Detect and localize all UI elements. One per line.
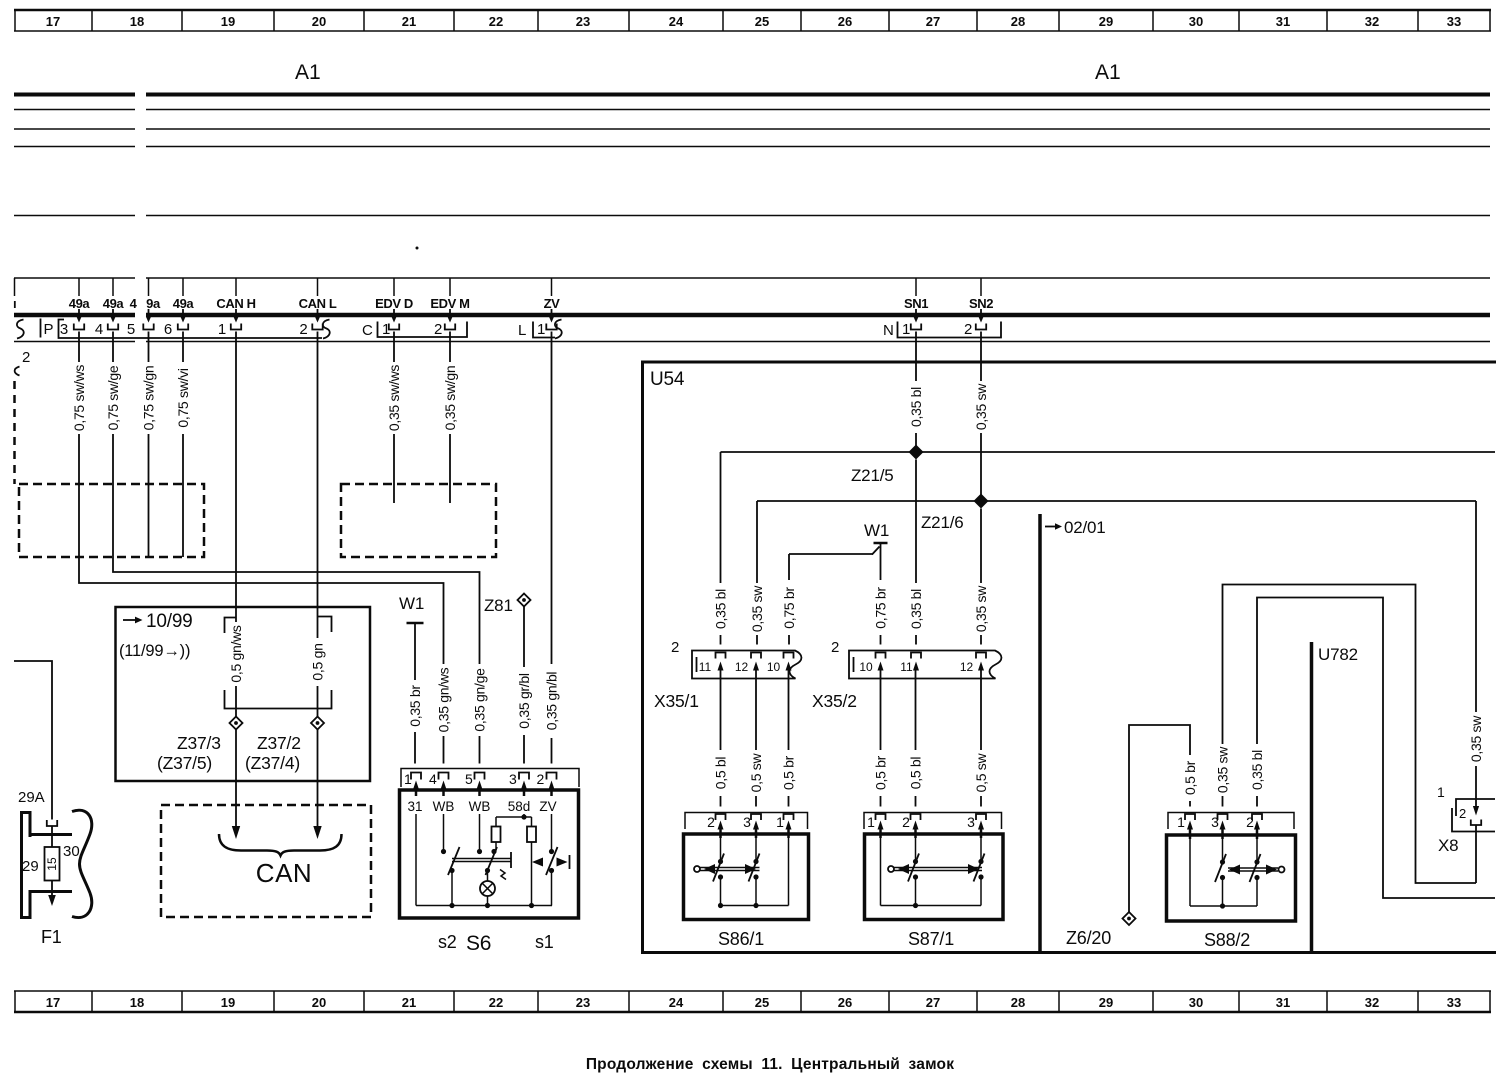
twisted pair bracket [225,690,332,709]
X35/2 pin 12 [976,653,986,671]
svg-text:25: 25 [755,14,769,29]
svg-text:CAN L: CAN L [299,296,337,311]
svg-text:24: 24 [669,14,684,29]
svg-text:21: 21 [402,14,416,29]
svg-text:2: 2 [1459,806,1466,821]
connector squiggle fragment at page edge [15,367,20,376]
connector C row [362,322,467,340]
S86/1 contact right [749,854,760,882]
wire CAN H down to Z37/3 [235,332,237,718]
svg-text:F1: F1 [41,927,62,947]
S87/1 pin 2 [902,814,920,838]
svg-text:19: 19 [221,995,235,1010]
svg-text:10: 10 [859,660,873,674]
terminal 49a (pin 4) [103,278,125,330]
svg-text:21: 21 [402,995,416,1010]
S6 internal terminal labels [407,799,556,814]
svg-text:31: 31 [407,799,422,814]
bus A1 thick line [14,93,1490,97]
svg-text:49a: 49a [173,296,195,311]
svg-text:23: 23 [576,14,590,29]
S87/1 internal wiring [881,836,982,906]
svg-text:0,5 sw: 0,5 sw [973,752,989,792]
svg-text:Z21/6: Z21/6 [921,513,963,532]
terminal EDV M [430,278,469,330]
wire 0,35 bl from Z21/5 to X35/1 pin 11 [720,452,722,645]
svg-text:31: 31 [1276,14,1290,29]
wire CAN H arrow into CAN [235,730,237,828]
column ruler top [14,10,1491,31]
svg-text:31: 31 [1276,995,1290,1010]
wire 0,5 br X35/1 to S86/1 pin 1 [788,670,790,807]
wire 0,35 br label (W1 to S6 pin1) [407,680,423,732]
wire 0,75 sw/ge from 49a pin4 to S6 pin 5 (becomes 0,35 gn/ge) [113,332,480,764]
svg-text:0,5 br: 0,5 br [1182,760,1198,795]
svg-text:N: N [883,322,894,339]
wire 0,35 sw from Z21/6 to X35/2 pin 12 [980,509,982,645]
terminal CAN L [299,278,337,330]
wire CAN L down to Z37/2 [317,332,319,718]
svg-text:EDV D: EDV D [375,296,413,311]
fuse element 15A [45,826,60,906]
svg-text:Z37/2: Z37/2 [257,733,301,753]
svg-text:29A: 29A [18,789,45,806]
svg-text:3: 3 [60,321,68,338]
node Z81 connector sleeve [484,594,531,764]
wire 0,75 br from W1 to X35/1 pin 10 [788,554,790,645]
switch S87/1 box [865,834,1004,920]
X35/1 pin 12 [751,653,761,671]
S87/1 actuator [888,864,982,874]
svg-text:0,35 sw: 0,35 sw [1215,746,1231,793]
svg-text:0,5 bl: 0,5 bl [908,757,924,790]
S6 pin 1 [404,771,421,796]
svg-text:W1: W1 [864,521,889,540]
svg-text:26: 26 [838,995,852,1010]
svg-text:5: 5 [465,771,473,787]
svg-text:20: 20 [312,14,326,29]
svg-text:0,35 gn/ge: 0,35 gn/ge [472,668,488,732]
svg-text:27: 27 [926,995,940,1010]
S6 actuator arrows s1 [532,855,570,869]
svg-text:1: 1 [537,321,545,338]
switch S86/1 connector bracket [685,813,808,830]
S6 pin 3 [509,771,529,796]
S6 rail junction dots [449,903,454,908]
wire 0,5 gn label [310,638,326,686]
svg-text:ı: ı [13,296,16,311]
svg-text:0,75 sw/vi: 0,75 sw/vi [175,368,191,427]
node CAN dashed box [161,805,371,917]
S88/2 actuator [1228,865,1285,875]
S88/2 contact right [1250,854,1261,882]
svg-text:1: 1 [1177,814,1185,830]
svg-text:S86/1: S86/1 [718,929,764,949]
svg-text:1: 1 [902,321,910,338]
svg-text:20: 20 [312,995,326,1010]
svg-text:(Z37/5): (Z37/5) [157,753,212,773]
svg-text:S6: S6 [466,932,491,955]
wire CAN L arrow into CAN [317,730,319,828]
svg-text:22: 22 [489,14,503,29]
X35/2 pin 10 [876,653,886,671]
svg-text:A1: A1 [1095,61,1121,84]
svg-text:s2: s2 [438,932,457,952]
connector X8 [1437,784,1495,883]
wire 0,35 sw/gn from EDV M [449,332,451,504]
switch S87/1 connector bracket [864,813,1002,830]
wire from page edge to fuse F1 terminal 29A [14,661,52,820]
svg-text:0,35 bl: 0,35 bl [908,387,924,427]
terminal CAN H [216,278,255,330]
terminal 49a (pin 6) [173,278,195,330]
wire 0,75 br from W1 to X35/2 pin 10 [880,566,882,645]
wire 0,35 sw from Z21/6 down to X8 pin 2 [1475,501,1477,806]
svg-text:(11/99→)): (11/99→)) [119,642,190,660]
svg-text:2: 2 [964,321,972,338]
wire bus line 3 [14,128,1490,130]
svg-text:Продолжение схемы 11. Централь: Продолжение схемы 11. Центральный замок [586,1056,954,1073]
svg-text:0,5 br: 0,5 br [873,755,889,790]
connector X35/2 strip [812,639,1001,711]
svg-text:2: 2 [22,349,30,366]
svg-text:WB: WB [433,799,455,814]
svg-text:3: 3 [967,814,975,830]
svg-text:11: 11 [900,660,913,674]
svg-text:2: 2 [831,639,839,656]
node Z37/3 connector sleeve [157,717,243,774]
control unit U782 boundary line [1310,642,1314,951]
wire label bracket right (gn) [318,617,332,633]
svg-text:0,75 br: 0,75 br [873,587,889,629]
svg-text:0,75 sw/gn: 0,75 sw/gn [141,366,157,431]
S6 pin 2 [537,771,557,796]
svg-text:A1: A1 [295,61,321,84]
S6 internal wiring [416,814,552,906]
svg-text:CAN: CAN [256,858,312,888]
wire bus line 2 [14,109,1490,111]
switch unit S6 connector bracket [401,769,579,788]
S6 contact s2 [441,847,460,875]
svg-text:49a: 49a [69,296,91,311]
svg-text:0,35 gr/bl: 0,35 gr/bl [516,673,532,729]
svg-text:26: 26 [838,14,852,29]
S6 resistor (right) [527,827,536,843]
wire 0,5 br X35/2 to S87/1 pin 1 [880,670,882,807]
switch S86/1 box [684,834,809,920]
control unit U54 box (open right) [643,362,1497,953]
svg-text:0,35 br: 0,35 br [407,685,423,727]
svg-text:17: 17 [46,14,60,29]
svg-text:0,75 br: 0,75 br [781,587,797,629]
S86/1 pin 1 [776,814,793,838]
wire 0,5 sw X35/2 to S87/1 pin 3 [980,670,982,807]
svg-text:0,35 bl: 0,35 bl [713,589,729,629]
svg-text:32: 32 [1365,995,1379,1010]
S86/1 pin 2 [707,814,725,838]
svg-text:X35/1: X35/1 [654,691,699,711]
svg-text:22: 22 [489,995,503,1010]
svg-text:CAN H: CAN H [216,296,255,311]
S88/2 rail dot [1220,903,1225,908]
svg-text:12: 12 [735,660,749,674]
svg-text:19: 19 [221,14,235,29]
switch S88/2 box [1167,835,1296,921]
S6 pin 5 [465,771,485,796]
wire bus line 5 [14,215,1490,217]
svg-text:28: 28 [1011,14,1025,29]
dashed connector box right (EDV wires) [341,484,496,557]
wire 0,35 sw from S88/2 pin 3 to X8 [1223,585,1477,884]
S6 contact s1 [546,847,558,875]
svg-text:11: 11 [699,660,712,674]
wire 0,35 sw from Z21/6 to X35/1 pin 12 [756,501,758,645]
svg-text:58d: 58d [508,799,531,814]
svg-text:1: 1 [382,321,390,338]
svg-text:0,5 sw: 0,5 sw [748,752,764,792]
wire 0,75 sw/vi from 49a pin6 [182,332,184,558]
switch unit S6 box [400,790,579,918]
X35/2 pin 11 [911,653,921,671]
svg-text:0,35 bl: 0,35 bl [908,589,924,629]
svg-text:02/01: 02/01 [1064,518,1106,537]
S87/1 contact left [908,854,919,882]
label 10/99 with arrow [119,611,193,660]
svg-text:6: 6 [164,321,172,338]
svg-text:2: 2 [434,321,442,338]
svg-text:24: 24 [669,995,684,1010]
svg-text:U782: U782 [1318,645,1358,664]
wire 0,35 gr/bl label (Z81 to S6 pin3) [516,667,532,735]
terminal SN1 [904,278,928,330]
switch S88/2 connector bracket [1168,813,1294,830]
S88/2 pin 3 [1211,814,1227,839]
wire label bracket left (gn/ws) [225,618,237,634]
svg-text:SN2: SN2 [969,296,993,311]
S6 actuator shaft s2 [452,852,511,880]
node Z21/5 junction [721,445,1496,486]
svg-text:2: 2 [299,321,307,338]
antenna/ground symbol W1 (in U54) [789,521,889,566]
antenna/ground symbol W1 (left) [399,594,424,764]
svg-text:2: 2 [707,814,715,830]
X35/1 pin 10 [784,653,794,671]
svg-text:X8: X8 [1438,836,1458,855]
terminal name fragment at left page edge [13,278,16,311]
bus main thick line [14,313,1490,318]
svg-text:3: 3 [509,771,517,787]
svg-text:30: 30 [1189,995,1203,1010]
S87/1 rail dot [913,903,918,908]
svg-text:ZV: ZV [539,799,556,814]
wire 0,35 sw from SN2 to Z21/6 [980,332,982,502]
svg-text:W1: W1 [399,594,424,613]
svg-text:S87/1: S87/1 [908,929,954,949]
node Z37/2 connector sleeve [245,717,324,774]
S88/2 pin 2 [1246,814,1262,839]
wire 0,35 bl from Z21/5 to X35/2 pin 11 [915,460,917,645]
svg-text:29: 29 [22,858,39,875]
connector L row [518,320,562,340]
svg-text:9a: 9a [146,296,161,311]
svg-text:49a: 49a [103,296,125,311]
wire 0,5 gn/ws label [228,622,244,686]
wire 0,5 br from S88/2 pin 1 to Z6/20 [1129,725,1190,912]
dashed connector box left (49a wires) [19,484,204,557]
S87/1 pin 3 [967,814,986,838]
svg-text:L: L [518,322,526,339]
svg-text:0,35 sw: 0,35 sw [1468,715,1484,762]
svg-text:0,75 sw/ws: 0,75 sw/ws [71,365,87,432]
svg-text:C: C [362,322,373,339]
wire ZV to S6 pin 2 (0,35 gn/bl) [551,332,553,764]
svg-text:0,35 gn/ws: 0,35 gn/ws [436,667,452,732]
connector X35/1 strip [654,639,801,711]
svg-text:27: 27 [926,14,940,29]
S86/1 contact left [713,854,724,882]
svg-text:18: 18 [130,14,144,29]
wire 0,5 bl X35/1 to S86/1 pin 2 [720,670,722,807]
wire 0,5 bl X35/2 to S87/1 pin 2 [915,670,917,807]
svg-text:(Z37/4): (Z37/4) [245,753,300,773]
terminal EDV D [375,278,413,330]
svg-text:0,35 bl: 0,35 bl [1249,750,1265,790]
svg-text:29: 29 [1099,995,1113,1010]
svg-text:5: 5 [127,321,135,338]
svg-text:0,5 bl: 0,5 bl [713,757,729,790]
svg-text:30: 30 [63,843,80,860]
svg-text:ZV: ZV [544,296,561,311]
svg-text:2: 2 [671,639,679,656]
svg-text:2: 2 [1246,814,1254,830]
svg-text:1: 1 [218,321,226,338]
S87/1 contact right [974,854,985,882]
wire line under pin row [14,341,1490,343]
S6 pin 4 [429,771,449,796]
svg-text:3: 3 [743,814,751,830]
X35/1 pin 11 [716,653,726,671]
svg-text:4: 4 [95,321,103,338]
wire 0,35 sw/ws from EDV D [393,332,395,504]
svg-text:0,75 sw/ge: 0,75 sw/ge [105,365,121,430]
dashed edge fragment at page left [13,381,16,484]
svg-text:Z81: Z81 [484,596,513,615]
svg-text:S88/2: S88/2 [1204,930,1250,950]
svg-text:SN1: SN1 [904,296,928,311]
wire 0,35 bl from S88/2 pin 2 to page edge [1257,598,1495,899]
wire 0,35 bl from SN1 to Z21/5 [915,332,917,453]
terminal 49a (pin 3) [69,278,91,330]
S88/2 pin 1 [1177,814,1195,839]
svg-text:17: 17 [46,995,60,1010]
svg-text:s1: s1 [535,932,554,952]
S6 resistor (left) [492,827,501,843]
svg-text:15: 15 [45,857,59,871]
wire 0,75 sw/gn from 49a pin5 [148,332,150,558]
svg-text:4: 4 [429,771,437,787]
svg-text:EDV M: EDV M [430,296,469,311]
svg-text:P: P [44,321,54,338]
S88/2 internal wiring [1190,837,1257,906]
svg-text:0,5 gn/ws: 0,5 gn/ws [228,625,244,683]
wire 0,5 sw X35/1 to S86/1 pin 3 [755,670,757,807]
svg-text:29: 29 [1099,14,1113,29]
node Z21/6 junction [757,494,1476,533]
svg-text:2: 2 [902,814,910,830]
internal partition line (02/01) [1038,514,1042,952]
CAN brace [219,834,342,856]
S87/1 pin 1 [867,814,885,838]
reference arrow 02/01 [1045,518,1106,537]
svg-text:Z6/20: Z6/20 [1066,928,1111,948]
svg-text:12: 12 [960,660,974,674]
terminal 49a (pin 5) [130,278,161,330]
column ruler bottom [14,991,1491,1012]
box 10/99 variant frame [116,607,371,781]
S86/1 pin 3 [743,814,761,838]
svg-text:33: 33 [1447,995,1461,1010]
svg-text:32: 32 [1365,14,1379,29]
svg-text:1: 1 [1437,784,1445,800]
svg-text:18: 18 [130,995,144,1010]
S86/1 rail dots [718,903,723,908]
connector N row [883,322,1001,340]
svg-text:Z37/3: Z37/3 [177,733,221,753]
svg-text:10: 10 [767,660,781,674]
svg-text:30: 30 [1189,14,1203,29]
svg-text:33: 33 [1447,14,1461,29]
wire 0,75 sw/ws from 49a pin3 to S6 pin 4 (becomes 0,35 gn/ws) [79,332,444,764]
svg-text:0,35 sw: 0,35 sw [973,383,989,430]
S86/1 internal wiring [721,836,789,906]
S86/1 actuator [694,864,760,874]
svg-text:28: 28 [1011,995,1025,1010]
svg-text:0,5 gn: 0,5 gn [310,643,326,680]
pin cup at fuse top [47,820,57,826]
terminal SN2 [969,278,993,330]
S6 contact middle with lamp [477,847,497,896]
svg-text:0,35 sw: 0,35 sw [973,585,989,632]
svg-text:1: 1 [867,814,875,830]
wire terminal tick line [14,277,1490,279]
svg-text:X35/2: X35/2 [812,691,857,711]
svg-text:U54: U54 [650,369,685,390]
svg-text:25: 25 [755,995,769,1010]
svg-text:WB: WB [469,799,491,814]
fuse F1 holder body [22,810,92,917]
svg-text:4: 4 [130,296,138,311]
connector P row (continuation squiggle, letter, bracket) [17,319,330,339]
wire bus line 4 [14,146,1490,148]
svg-text:10/99: 10/99 [146,611,193,632]
node Z6/20 connector sleeve [1066,912,1136,948]
svg-text:2: 2 [537,771,545,787]
svg-text:0,35 sw: 0,35 sw [749,585,765,632]
svg-text:0,35 sw/gn: 0,35 sw/gn [442,366,458,431]
svg-text:Z21/5: Z21/5 [851,466,893,485]
svg-text:0,35 gn/bl: 0,35 gn/bl [544,672,560,731]
svg-text:0,5 br: 0,5 br [781,755,797,790]
svg-text:0,35 sw/ws: 0,35 sw/ws [386,365,402,432]
terminal ZV [544,278,561,330]
S88/2 contact left [1215,854,1226,882]
svg-text:23: 23 [576,995,590,1010]
